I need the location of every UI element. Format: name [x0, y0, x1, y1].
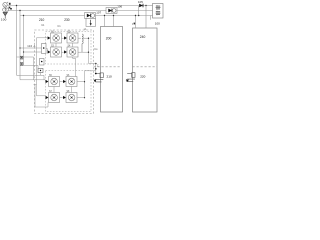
wire top rail right	[82, 38, 96, 63]
junction dot	[104, 15, 105, 16]
wire S2 right	[78, 38, 82, 52]
wire D3 anode drop	[138, 6, 140, 16]
load glyph bottom	[156, 11, 161, 15]
junction dot	[138, 15, 139, 16]
dashed box lower bridge	[46, 71, 92, 112]
wire load stub	[150, 16, 152, 20]
arrow A2	[126, 79, 128, 82]
svg-text:210: 210	[39, 18, 45, 22]
switch cell S4	[64, 45, 78, 57]
inductor L1	[82, 34, 83, 52]
sensor block SR3	[38, 69, 43, 73]
transformer T1 (double circle symbol)	[3, 8, 9, 12]
wire left feeder 0	[16, 6, 18, 76]
wire bus1 (top DC bus)	[8, 5, 153, 7]
switch cell S3	[48, 45, 62, 57]
node dot S4 tri	[64, 51, 65, 52]
wire stub box1-b	[113, 16, 115, 27]
switch cell S1	[48, 31, 62, 43]
node dot S8 tri	[63, 97, 64, 98]
switch cell S2	[64, 31, 78, 43]
junction dot	[95, 63, 97, 65]
wire feeder2 horizontal	[24, 51, 42, 53]
wire S1-S3 column link	[55, 43, 57, 47]
junction dot	[10, 8, 12, 10]
svg-text:230: 230	[64, 18, 70, 22]
label A	[20, 56, 23, 59]
dashed control line right	[133, 66, 158, 68]
node dot S1 tri	[48, 37, 49, 38]
load glyph top	[156, 5, 161, 9]
current sensor CT2 on box2	[126, 73, 135, 82]
svg-text:105: 105	[138, 0, 143, 4]
junction dot	[113, 15, 114, 16]
label 102	[9, 7, 11, 9]
dashed box 210 (converter assembly)	[35, 30, 94, 114]
label 101	[9, 3, 11, 5]
junction dot rail3	[84, 81, 85, 82]
load box (load)	[153, 4, 164, 19]
sensor block SR1	[42, 44, 47, 54]
diode D1 in box on bus3	[85, 13, 96, 19]
converter block 200 (tall box 1)	[101, 27, 123, 113]
node dot S2 tri	[64, 37, 65, 38]
wire S7-S8 link	[60, 97, 63, 99]
svg-text:210: 210	[107, 75, 112, 79]
switch cell S7	[46, 91, 60, 103]
wire bottom left step	[34, 85, 49, 108]
svg-text:106: 106	[117, 5, 122, 9]
junction dot	[135, 15, 136, 16]
wire bottom rail right	[77, 82, 85, 98]
junction dot rail4	[84, 97, 85, 98]
node dot S3 tri	[48, 51, 49, 52]
wire stub box1-a	[104, 16, 106, 27]
arrow A1	[94, 80, 96, 83]
node dot S7 tri	[46, 97, 47, 98]
svg-text:240: 240	[140, 35, 146, 39]
diode D3 on bus1	[139, 4, 143, 8]
wire left rail 1	[37, 38, 48, 96]
wire feeder to S3	[19, 47, 41, 48]
svg-text:200: 200	[106, 37, 112, 41]
wire left feeder 1	[19, 11, 21, 80]
wire S3-S4 link	[62, 51, 64, 53]
junction dot rail2	[88, 52, 89, 53]
node dot S5 tri	[46, 81, 47, 82]
node dot S6 tri	[63, 81, 64, 82]
wire stub box2-b	[145, 6, 147, 29]
wire left feeder 2	[23, 16, 25, 66]
source G1 (top-left circle symbol)	[3, 2, 8, 7]
arrester F1 (triangle symbol)	[3, 7, 7, 18]
wire bus3 (lower DC bus)	[20, 15, 153, 17]
wire left rail 2	[17, 57, 46, 80]
wire S1-S2 link	[62, 37, 64, 39]
junction dot lower output	[95, 68, 97, 70]
dashed control boundary line	[94, 66, 121, 68]
wire S5 upper feed	[17, 75, 45, 80]
switch cell S6	[63, 75, 77, 87]
junction dot	[145, 5, 146, 6]
wire SR1 to S3	[46, 49, 47, 52]
switch cell S8	[63, 91, 77, 103]
wire S5-S7 column link	[53, 87, 55, 93]
wire S5-S6 link	[60, 81, 63, 83]
wire mid vertical	[73, 57, 76, 77]
wire sensor feed	[95, 64, 97, 74]
svg-text:107: 107	[96, 10, 101, 14]
dashed box upper bridge	[46, 32, 92, 65]
wire stub box2-a	[135, 16, 137, 29]
junction dot bus2/feeder1	[19, 10, 20, 11]
svg-text:100: 100	[1, 17, 7, 21]
wire bus2 (middle DC bus)	[7, 10, 152, 12]
svg-text:110 A: 110 A	[27, 44, 35, 48]
wire lower output	[85, 71, 96, 82]
switch box under D1	[86, 18, 96, 26]
converter block 240 (tall box 2)	[133, 28, 158, 112]
junction dot bus1/feeder0	[16, 5, 17, 6]
switch cell S5	[46, 75, 60, 87]
wire S2-S4 column link	[72, 43, 74, 47]
svg-text:100: 100	[155, 21, 160, 25]
junction dot bus3/feeder2	[23, 15, 24, 16]
diode D2 in box on bus2	[106, 8, 117, 14]
svg-text:220: 220	[140, 75, 145, 79]
wire feeder2 elbow	[24, 66, 39, 69]
label B	[20, 63, 23, 66]
junction dot rail	[88, 38, 89, 39]
current sensor CT1 on box1	[94, 73, 103, 82]
wire S6-S8 column link	[71, 87, 73, 93]
sensor block SR2	[40, 59, 45, 66]
